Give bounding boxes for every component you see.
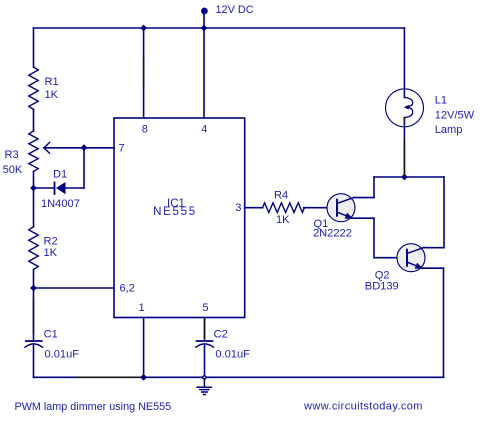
svg-text:5: 5 [202, 302, 208, 314]
node A junction R3/D1/R2 [30, 185, 37, 192]
svg-text:D1: D1 [53, 169, 67, 181]
wire black segment on pin 8 drop [143, 59, 145, 86]
svg-text:PWM lamp dimmer using NE555: PWM lamp dimmer using NE555 [15, 401, 172, 413]
transistor Q2 base bar [406, 250, 408, 266]
resistor R1 [29, 67, 38, 109]
wire black segment below lamp [403, 141, 405, 175]
wire Q2 emitter down to bottom rail [443, 268, 445, 377]
capacitor C2 top plate [197, 340, 213, 342]
svg-text:R1: R1 [45, 76, 59, 88]
wire R3 to node A [33, 171, 35, 188]
diode D1 triangle [56, 182, 66, 194]
wire black segment above C1 [33, 298, 35, 333]
svg-text:R4: R4 [274, 189, 288, 201]
resistor R4 [263, 203, 305, 213]
wire black segment of bottom rail [76, 376, 140, 378]
wire node A to R2 [33, 188, 35, 227]
wire node B down to C1 [33, 288, 35, 341]
transistor Q1 base bar [336, 200, 338, 216]
transistor Q2 collector line [408, 247, 425, 253]
diode D1 cathode bar [54, 183, 56, 195]
wire pin 4 drop from top rail [203, 28, 205, 118]
svg-text:12V DC: 12V DC [216, 4, 254, 16]
svg-text:R2: R2 [44, 236, 58, 248]
potentiometer R3 [29, 131, 38, 171]
wire C2 to ground node [204, 344, 206, 374]
wire collector net horizontal rail [374, 176, 444, 178]
wire pin 8 drop from top rail [143, 28, 145, 118]
wire pin 5 down to C2 [204, 318, 206, 342]
node junction top rail / pin8 drop [140, 25, 147, 32]
wire bottom ground rail [34, 376, 444, 378]
svg-text:1K: 1K [44, 247, 58, 259]
transistor Q1 emitter line [338, 212, 351, 217]
svg-text:50K: 50K [3, 164, 23, 176]
wire pin 7 to wiper arrow [44, 147, 114, 149]
svg-text:C1: C1 [44, 329, 58, 341]
svg-text:0.01uF: 0.01uF [45, 349, 80, 361]
svg-text:1: 1 [139, 302, 145, 314]
svg-text:4: 4 [201, 124, 207, 136]
ground symbol [197, 380, 211, 394]
wire Q1 emitter down to Q2 base level [373, 218, 375, 258]
wire left rail upper [33, 28, 35, 67]
wire Q1 collector corner up [373, 177, 375, 198]
wire pin 3 stub [245, 207, 263, 209]
wire R2 to node B [33, 270, 35, 289]
svg-text:www.circuitstoday.com: www.circuitstoday.com [303, 401, 423, 413]
wire top power rail [34, 27, 405, 29]
wire D1 anode to corner [66, 187, 85, 189]
wire Q2 emitter horizontal [422, 267, 444, 269]
IC IC1 NE555 box [114, 118, 245, 318]
wire node B to pin 6,2 [34, 287, 115, 289]
svg-text:7: 7 [119, 143, 125, 155]
wire node A to D1 cathode [34, 187, 55, 189]
transistor Q1 body [327, 194, 355, 222]
resistor R2 [29, 227, 38, 270]
svg-text:1N4007: 1N4007 [41, 198, 80, 210]
lamp L1 filament [404, 97, 412, 117]
svg-text:12V/5W: 12V/5W [435, 109, 475, 121]
wire black segment pin 5 drop [204, 318, 206, 340]
transistor Q1 collector line [338, 197, 355, 203]
svg-text:BD139: BD139 [365, 281, 399, 293]
wire Q1 collector to corner [354, 197, 374, 199]
capacitor C1 top plate [26, 340, 42, 342]
node junction pin7 wire / D1 branch [81, 144, 88, 151]
svg-text:8: 8 [142, 124, 148, 136]
wire pin 1 to bottom rail [143, 318, 145, 378]
node junction top rail / pin4 drop [201, 25, 208, 32]
transistor Q2 body [397, 244, 425, 272]
svg-text:2N2222: 2N2222 [313, 228, 352, 240]
wire to Q2 base [374, 257, 407, 259]
node open junction C2 / bottom rail [201, 374, 207, 380]
transistor Q1 emitter arrow [345, 213, 354, 219]
node 12V DC terminal dot [201, 8, 208, 15]
svg-text:NE555: NE555 [153, 206, 197, 218]
capacitor C2 curved plate [196, 344, 214, 347]
svg-text:3: 3 [235, 202, 241, 214]
node junction pin 1 / bottom rail [140, 374, 147, 381]
potentiometer R3 wiper arrow [44, 142, 50, 153]
svg-text:0.01uF: 0.01uF [215, 349, 250, 361]
lamp L1 body [386, 89, 424, 127]
svg-text:1K: 1K [276, 214, 290, 226]
wire collector net right vertical [443, 177, 445, 248]
svg-text:R3: R3 [5, 149, 19, 161]
svg-text:1K: 1K [45, 89, 59, 101]
capacitor C1 curved plate [25, 344, 43, 347]
wire D1 corner up to pin7 net [83, 148, 85, 188]
wire Q1 emitter horizontal [352, 217, 374, 219]
wire R1 to R3 [33, 109, 35, 131]
wire R4 to Q1 base [304, 207, 337, 209]
svg-text:C2: C2 [214, 329, 228, 341]
svg-text:6,2: 6,2 [120, 283, 135, 295]
wire lamp drop from top rail [403, 28, 405, 97]
wire C1 to bottom rail [33, 344, 35, 377]
wire Q2 collector to right vertical [424, 247, 444, 249]
node junction lamp / collector rail [401, 174, 408, 181]
transistor Q2 emitter line [408, 262, 421, 267]
wire black segment below lamp filament [403, 118, 405, 122]
lamp L1 filament arrow [404, 105, 409, 110]
wire lamp bottom to collector rail [403, 118, 405, 177]
svg-text:Lamp: Lamp [435, 124, 463, 136]
node B junction R2/C1/pin 6,2 [30, 285, 37, 292]
wire 12V DC stub [203, 11, 205, 28]
svg-text:L1: L1 [435, 94, 447, 106]
transistor Q2 emitter arrow [415, 263, 424, 269]
